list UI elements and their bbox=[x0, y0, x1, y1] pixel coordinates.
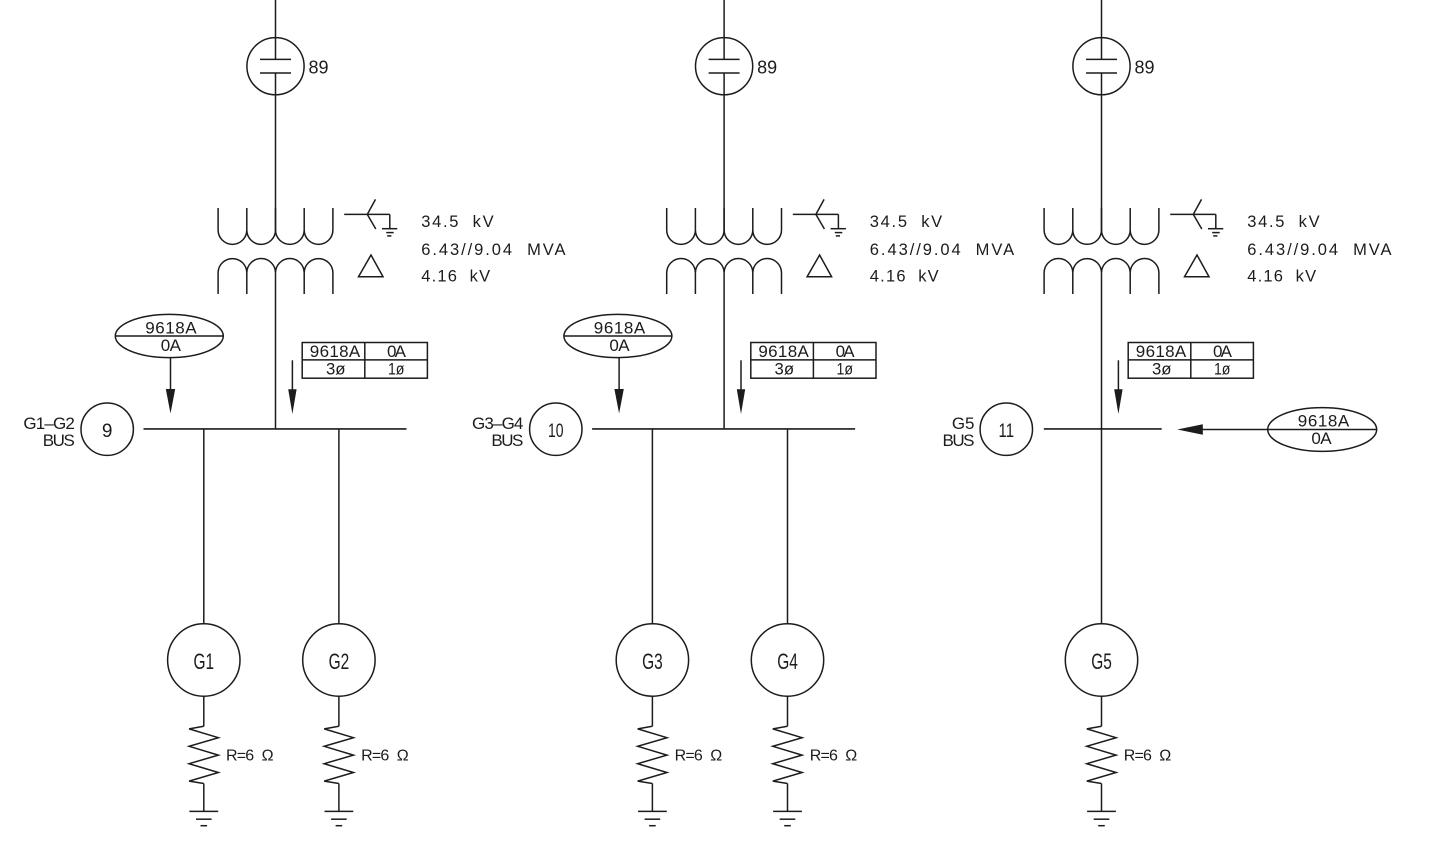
svg-text:0A: 0A bbox=[1311, 429, 1332, 448]
wire: switch 89 to transformer bbox=[1101, 73, 1103, 232]
transformer G3&#8211;G4 primary winding (wye) bbox=[667, 208, 782, 244]
node 9 (G1&#8211;G2 BUS) bbox=[81, 403, 133, 455]
ground (transformer neutral) bbox=[831, 229, 846, 236]
wye winding symbol bbox=[1170, 199, 1216, 229]
wire: resistor to ground bbox=[651, 784, 653, 812]
svg-text:0A: 0A bbox=[836, 342, 856, 361]
svg-text:3ø: 3ø bbox=[326, 360, 346, 379]
svg-text:G4: G4 bbox=[777, 649, 798, 674]
ground (G1) bbox=[189, 811, 218, 825]
arrow: meter to G5 bus bbox=[1177, 424, 1267, 435]
resistor R=6 ohm (G4) bbox=[773, 726, 802, 783]
label R=6 ohm bbox=[810, 748, 858, 765]
node 10 (G3&#8211;G4 BUS) bbox=[530, 403, 582, 455]
ground (transformer neutral) bbox=[1208, 229, 1223, 236]
ground (G5) bbox=[1087, 811, 1116, 825]
svg-text:9618A: 9618A bbox=[310, 342, 361, 361]
svg-text:R=6: R=6 bbox=[1124, 748, 1152, 765]
svg-text:1ø: 1ø bbox=[837, 360, 854, 379]
transformer G5 primary winding (wye) bbox=[1044, 208, 1159, 244]
arrow: fault contribution to bus bbox=[288, 360, 296, 414]
svg-text:0A: 0A bbox=[161, 336, 182, 355]
label R=6 ohm bbox=[226, 748, 274, 765]
arrow: meter to bus bbox=[166, 358, 175, 414]
ground (transformer neutral) bbox=[382, 229, 397, 236]
svg-text:4.16 kV: 4.16 kV bbox=[421, 268, 490, 286]
svg-text:R=6: R=6 bbox=[361, 748, 389, 765]
svg-text:Ω: Ω bbox=[397, 748, 409, 765]
svg-text:1ø: 1ø bbox=[1214, 360, 1231, 379]
svg-text:9618A: 9618A bbox=[594, 318, 646, 337]
wire: bus to generator bbox=[203, 429, 205, 624]
svg-text:Ω: Ω bbox=[710, 748, 722, 765]
svg-text:R=6: R=6 bbox=[226, 748, 254, 765]
wire: transformer to bus bbox=[723, 273, 725, 429]
svg-text:6.43//9.04 MVA: 6.43//9.04 MVA bbox=[1247, 241, 1391, 259]
label R=6 ohm bbox=[361, 748, 409, 765]
resistor R=6 ohm (G3) bbox=[638, 726, 667, 783]
svg-text:BUS: BUS bbox=[43, 431, 75, 450]
svg-text:BUS: BUS bbox=[491, 431, 523, 450]
svg-text:R=6: R=6 bbox=[810, 748, 838, 765]
svg-text:9618A: 9618A bbox=[1298, 412, 1350, 431]
generator G5 bbox=[1065, 624, 1137, 696]
disconnect switch 89 (G5) bbox=[1073, 38, 1130, 95]
ground (G3) bbox=[638, 811, 667, 825]
transformer G3&#8211;G4 secondary winding (delta) bbox=[667, 259, 782, 294]
wire: transformer to bus bbox=[275, 273, 277, 429]
disconnect switch 89 (G3&#8211;G4) bbox=[696, 38, 753, 95]
svg-text:9618A: 9618A bbox=[1136, 342, 1187, 361]
generator G3 bbox=[616, 624, 688, 696]
wire: bus to generator bbox=[651, 429, 653, 624]
wire: bus to generator bbox=[338, 429, 340, 624]
wire: resistor to ground bbox=[787, 784, 789, 812]
svg-text:34.5 kV: 34.5 kV bbox=[870, 213, 942, 231]
wye winding symbol bbox=[344, 199, 390, 229]
label R=6 ohm bbox=[675, 748, 723, 765]
svg-text:G5: G5 bbox=[1091, 649, 1112, 674]
label G3&#8211;G4 BUS bbox=[472, 414, 523, 450]
arrow: fault contribution to bus bbox=[1114, 360, 1122, 414]
fault current table (G1&#8211;G2) bbox=[302, 342, 427, 378]
svg-text:R=6: R=6 bbox=[675, 748, 703, 765]
svg-text:3ø: 3ø bbox=[1152, 360, 1172, 379]
delta winding symbol bbox=[807, 255, 832, 277]
wire: generator to grounding resistor bbox=[787, 696, 789, 726]
svg-text:89: 89 bbox=[1135, 58, 1155, 78]
label G5 BUS bbox=[943, 414, 975, 450]
ground (G4) bbox=[773, 811, 802, 825]
svg-text:0A: 0A bbox=[387, 342, 407, 361]
resistor R=6 ohm (G1) bbox=[189, 726, 218, 783]
meter 9618A/0A (G5 feed) bbox=[1268, 408, 1377, 452]
delta winding symbol bbox=[1185, 255, 1210, 277]
svg-text:Ω: Ω bbox=[1159, 748, 1171, 765]
meter 9618A/0A (G3&#8211;G4) bbox=[564, 314, 672, 357]
svg-text:6.43//9.04 MVA: 6.43//9.04 MVA bbox=[870, 241, 1014, 259]
wire: resistor to ground bbox=[338, 784, 340, 812]
fault current table (G3&#8211;G4) bbox=[751, 342, 876, 378]
svg-text:9618A: 9618A bbox=[758, 342, 809, 361]
bus G1&#8211;G2 bbox=[144, 428, 407, 430]
label G1&#8211;G2 BUS bbox=[23, 414, 74, 450]
generator G1 bbox=[168, 624, 240, 696]
svg-text:Ω: Ω bbox=[262, 748, 274, 765]
fault current table (G5) bbox=[1128, 342, 1253, 378]
wire: generator to grounding resistor bbox=[203, 696, 205, 726]
ground (G2) bbox=[325, 811, 354, 825]
arrow: fault contribution to bus bbox=[737, 360, 745, 414]
generator G2 bbox=[303, 624, 375, 696]
label R=6 ohm bbox=[1124, 748, 1172, 765]
svg-text:3ø: 3ø bbox=[775, 360, 795, 379]
wire: switch 89 to transformer bbox=[275, 73, 277, 232]
wire: generator to grounding resistor bbox=[651, 696, 653, 726]
svg-text:G3: G3 bbox=[642, 649, 663, 674]
svg-text:0A: 0A bbox=[609, 336, 630, 355]
svg-text:0A: 0A bbox=[1213, 342, 1233, 361]
wire: resistor to ground bbox=[1101, 784, 1103, 812]
svg-text:6.43//9.04 MVA: 6.43//9.04 MVA bbox=[421, 241, 565, 259]
resistor R=6 ohm (G5) bbox=[1087, 726, 1116, 783]
wire: bus to generator bbox=[787, 429, 789, 624]
wire: generator to grounding resistor bbox=[338, 696, 340, 726]
wire: incoming feeder G1&#8211;G2 bbox=[275, 0, 277, 59]
svg-text:1ø: 1ø bbox=[388, 360, 405, 379]
svg-text:Ω: Ω bbox=[845, 748, 857, 765]
arrow: meter to bus bbox=[614, 358, 623, 414]
resistor R=6 ohm (G2) bbox=[324, 726, 353, 783]
bus G5 bbox=[1044, 428, 1162, 430]
svg-text:9: 9 bbox=[102, 421, 113, 442]
svg-text:11: 11 bbox=[999, 421, 1015, 442]
svg-text:89: 89 bbox=[757, 58, 777, 78]
wire: transformer to generator G5 bbox=[1101, 273, 1103, 624]
generator G4 bbox=[751, 624, 823, 696]
svg-text:10: 10 bbox=[548, 421, 564, 442]
meter 9618A/0A (G1&#8211;G2) bbox=[115, 314, 223, 357]
wire: generator to grounding resistor bbox=[1101, 696, 1103, 726]
svg-text:34.5 kV: 34.5 kV bbox=[421, 213, 493, 231]
svg-text:BUS: BUS bbox=[943, 431, 975, 450]
svg-text:4.16 kV: 4.16 kV bbox=[1247, 268, 1316, 286]
disconnect switch 89 (G1&#8211;G2) bbox=[247, 38, 304, 95]
delta winding symbol bbox=[359, 255, 384, 277]
wye winding symbol bbox=[793, 199, 839, 229]
transformer G1&#8211;G2 primary winding (wye) bbox=[218, 208, 333, 244]
wire: resistor to ground bbox=[203, 784, 205, 812]
node 11 (G5 BUS) bbox=[980, 403, 1032, 455]
svg-text:9618A: 9618A bbox=[145, 318, 197, 337]
svg-text:89: 89 bbox=[309, 58, 329, 78]
wire: incoming feeder G5 bbox=[1101, 0, 1103, 59]
svg-text:34.5 kV: 34.5 kV bbox=[1247, 213, 1319, 231]
wire: incoming feeder G3&#8211;G4 bbox=[723, 0, 725, 59]
svg-text:G2: G2 bbox=[329, 649, 350, 674]
transformer G1&#8211;G2 secondary winding (delta) bbox=[218, 259, 333, 294]
bus G3&#8211;G4 bbox=[592, 428, 855, 430]
wire: switch 89 to transformer bbox=[723, 73, 725, 232]
svg-text:4.16 kV: 4.16 kV bbox=[870, 268, 939, 286]
transformer G5 secondary winding (delta) bbox=[1044, 259, 1159, 294]
svg-text:G1: G1 bbox=[194, 649, 215, 674]
